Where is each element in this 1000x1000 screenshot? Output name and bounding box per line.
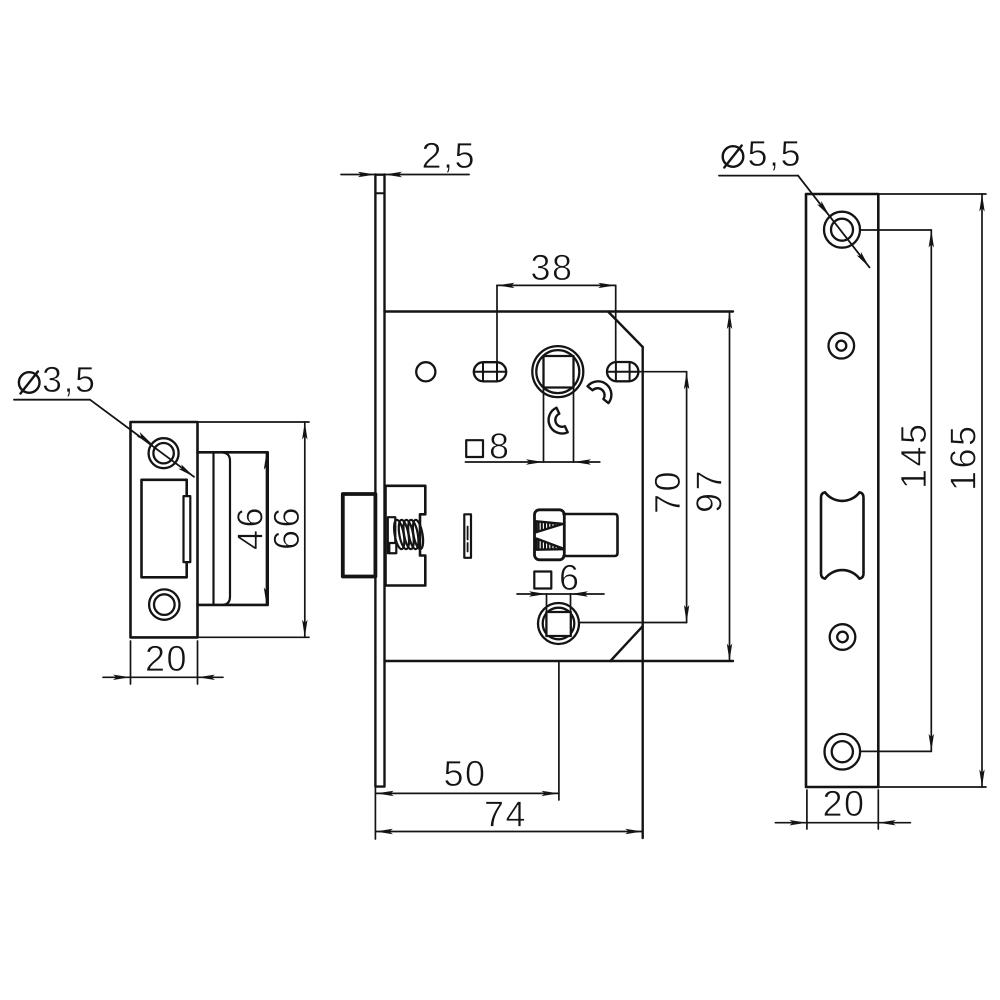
svg-text:20: 20 (823, 783, 866, 824)
strike plate hole detail rect (184, 496, 191, 562)
strike plate lip edge (224, 453, 231, 605)
faceplate latch cutout (821, 492, 864, 578)
svg-text:70: 70 (647, 469, 688, 514)
strike plate tab (198, 452, 268, 605)
dimension 165 (878, 194, 986, 787)
handle hub (532, 346, 583, 397)
dimension 50 (375, 661, 559, 839)
deadbolt follower block (535, 510, 565, 560)
svg-text:74: 74 (484, 794, 527, 835)
dimension 97 (689, 312, 733, 662)
strike plate latch hole (142, 480, 187, 578)
dimension 20 faceplate (775, 783, 910, 829)
strike screw hole top (149, 438, 179, 468)
latch bolt head (343, 494, 376, 577)
screw post right (607, 362, 638, 381)
guide circle (416, 362, 435, 381)
dimension 20 strike plate (103, 638, 223, 684)
svg-text:5,5: 5,5 (748, 133, 803, 174)
latch bolt body (386, 486, 426, 586)
dimension 66 (198, 422, 310, 637)
strike screw hole bottom (149, 589, 179, 619)
strike plate fold line (212, 452, 214, 605)
svg-text:46: 46 (230, 505, 271, 550)
svg-text:97: 97 (689, 468, 730, 513)
key hub (538, 603, 579, 644)
stop pin (464, 514, 471, 558)
deadbolt teeth bottom (536, 539, 563, 550)
svg-text:2,5: 2,5 (422, 135, 477, 176)
dimension 145 (860, 230, 934, 751)
dimension 2,5 (341, 135, 476, 177)
svg-text:20: 20 (145, 638, 188, 679)
faceplate screw hole top (824, 212, 860, 248)
label diameter 5,5 (719, 133, 870, 267)
svg-text:145: 145 (893, 421, 934, 489)
svg-text:165: 165 (943, 423, 984, 491)
deadbolt teeth top (536, 521, 562, 532)
lock body outline (385, 312, 734, 839)
faceplate pin hole lower (830, 624, 856, 650)
dimension 38 (497, 247, 616, 362)
svg-text:38: 38 (531, 247, 574, 288)
cam lever right (588, 381, 612, 403)
faceplate side strip (375, 175, 384, 787)
dimension 70 (579, 372, 689, 623)
latch spring seat (388, 517, 397, 553)
svg-text:50: 50 (444, 753, 487, 794)
svg-text:8: 8 (489, 426, 511, 467)
svg-text:3,5: 3,5 (42, 359, 97, 400)
strike plate outline (131, 422, 198, 637)
screw post left (474, 362, 506, 381)
cam lever lower (549, 408, 568, 434)
faceplate pin hole upper (829, 333, 855, 359)
latch spring (392, 519, 425, 550)
faceplate front outline (806, 194, 878, 787)
svg-text:66: 66 (266, 505, 307, 550)
dimension 46 (230, 452, 271, 605)
deadbolt body (564, 514, 618, 556)
dimension 74 (375, 794, 642, 835)
dimension square 8 (465, 388, 599, 467)
faceplate screw hole bottom (825, 734, 861, 770)
svg-text:6: 6 (559, 557, 581, 598)
dimension square 6 (517, 557, 604, 612)
label diameter 3,5 (14, 359, 194, 477)
